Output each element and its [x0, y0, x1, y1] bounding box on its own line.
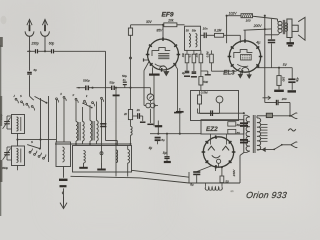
svg-text:0.5M: 0.5M [201, 91, 208, 95]
svg-text:20k: 20k [167, 18, 174, 22]
svg-text:un: un [231, 190, 234, 193]
svg-text:π: π [73, 94, 75, 97]
svg-text:0.3M: 0.3M [206, 51, 209, 57]
svg-text:10n: 10n [203, 26, 208, 30]
svg-text:200: 200 [281, 97, 287, 101]
svg-text:2n: 2n [136, 108, 141, 112]
svg-text:S: S [31, 140, 33, 144]
svg-text:490p: 490p [2, 166, 8, 170]
svg-text:8Ω: 8Ω [237, 131, 240, 135]
svg-text:200V: 200V [253, 24, 263, 28]
svg-text:102V: 102V [229, 12, 238, 16]
svg-text:85V: 85V [157, 28, 164, 32]
svg-text:2k: 2k [123, 112, 128, 116]
svg-text:Orion 933: Orion 933 [245, 190, 287, 200]
svg-text:50n: 50n [192, 28, 197, 32]
svg-text:8µ: 8µ [161, 138, 165, 142]
svg-text:30V: 30V [146, 20, 153, 24]
svg-text:25k: 25k [196, 52, 199, 58]
svg-text:240V: 240V [232, 169, 236, 178]
svg-text:3µ: 3µ [182, 71, 185, 75]
svg-text:10n: 10n [182, 52, 185, 57]
svg-text:5V: 5V [283, 63, 288, 67]
svg-text:J: J [13, 94, 15, 98]
svg-text:8µ: 8µ [190, 183, 194, 187]
svg-text:50p: 50p [109, 80, 114, 84]
svg-text:8Ω: 8Ω [237, 123, 240, 127]
svg-text:EF9: EF9 [162, 11, 174, 18]
svg-text:40µ: 40µ [296, 77, 300, 82]
svg-text:S: S [20, 94, 22, 98]
svg-text:50: 50 [186, 28, 189, 32]
svg-text:4µ: 4µ [149, 146, 153, 150]
svg-text:50k: 50k [203, 80, 208, 84]
svg-text:180: 180 [282, 77, 286, 82]
svg-text:µ: µ [61, 92, 63, 95]
svg-text:50µ: 50µ [122, 74, 127, 78]
svg-text:EZ2: EZ2 [206, 126, 218, 133]
svg-text:8µ: 8µ [163, 151, 167, 155]
svg-text:k: k [86, 94, 88, 98]
svg-text:6p: 6p [34, 68, 38, 72]
svg-text:8.2M: 8.2M [214, 29, 221, 33]
svg-text:0.1: 0.1 [189, 53, 192, 57]
svg-text:4µ: 4µ [256, 40, 261, 44]
svg-text:230p: 230p [31, 41, 39, 45]
svg-text:EL3: EL3 [223, 69, 235, 76]
svg-text:530p: 530p [83, 79, 90, 83]
svg-text:60p: 60p [49, 41, 55, 45]
svg-text:100: 100 [246, 19, 251, 23]
